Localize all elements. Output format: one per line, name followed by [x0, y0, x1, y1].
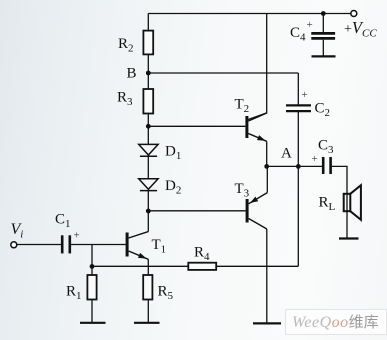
- svg-text:A: A: [281, 146, 292, 162]
- resistor R4: [188, 263, 216, 270]
- svg-text:R4: R4: [194, 245, 210, 264]
- wire top rail +Vcc: [148, 13, 350, 15]
- ground R5: [134, 322, 160, 324]
- wire feedback to R4: [216, 265, 298, 267]
- wire D2 to T1 collector node: [147, 191, 149, 211]
- wire feedback node A down: [297, 166, 299, 266]
- svg-text:R5: R5: [158, 284, 174, 303]
- wire D1 to D2: [147, 156, 149, 179]
- wire T1 collector vertical: [147, 211, 149, 232]
- resistor R2: [143, 31, 153, 55]
- diode D2: [139, 179, 158, 191]
- capacitor C4: [311, 33, 335, 38]
- svg-text:D1: D1: [165, 144, 181, 163]
- wire C2 bottom to node A: [297, 112, 299, 166]
- wire R4 to base bias node: [92, 265, 188, 267]
- node base bias junction: [90, 264, 95, 269]
- wire C2 top from node B: [297, 73, 299, 105]
- svg-text:RL: RL: [319, 195, 336, 214]
- wire base node down to R1: [91, 245, 93, 276]
- wire T3 collector to ground: [266, 229, 268, 323]
- wire input terminal to C1: [17, 244, 61, 246]
- wire Vcc to C4: [322, 14, 324, 33]
- svg-text:T2: T2: [235, 97, 250, 116]
- svg-text:D2: D2: [165, 178, 181, 197]
- node T3 base junction: [146, 209, 151, 214]
- svg-text:+VCC: +VCC: [344, 18, 377, 39]
- svg-text:R2: R2: [118, 36, 134, 55]
- svg-text:B: B: [127, 66, 137, 82]
- output terminal +Vcc: [351, 11, 357, 17]
- svg-text:+: +: [74, 230, 80, 242]
- wire C3 to speaker: [330, 166, 347, 238]
- wire T3 emitter to node A: [266, 166, 268, 192]
- svg-text:+: +: [302, 89, 308, 101]
- wire R1 to ground: [91, 300, 93, 323]
- node A junction: [264, 164, 269, 169]
- watermark WeeQoo: [285, 309, 387, 335]
- capacitor C3: [323, 157, 330, 174]
- wire R2 to R3 through node B: [147, 54, 149, 89]
- svg-text:C1: C1: [55, 211, 71, 230]
- wire node A to C3: [267, 165, 322, 167]
- wire C1 to T1 base: [71, 244, 126, 246]
- ground T3 collector: [253, 322, 281, 324]
- resistor R3: [143, 89, 153, 114]
- node T2 base junction: [146, 124, 151, 129]
- wire R3 to D1: [147, 114, 149, 145]
- node B junction: [146, 71, 151, 76]
- speaker RL: [344, 185, 361, 220]
- wire D2 bottom node to T3 base: [148, 210, 245, 212]
- node C4 top junction: [321, 11, 326, 16]
- svg-text:C4: C4: [290, 25, 306, 44]
- ground speaker: [339, 237, 359, 239]
- svg-text:R3: R3: [117, 90, 133, 109]
- wire node B to C2 column: [148, 72, 298, 74]
- svg-text:+: +: [312, 153, 318, 165]
- node C2 bottom junction: [296, 164, 301, 169]
- ground C4: [312, 55, 336, 57]
- resistor R5: [143, 275, 152, 300]
- ground R1: [80, 322, 106, 324]
- svg-text:Vi: Vi: [11, 221, 24, 241]
- wire R3 bottom node to T2 base: [148, 125, 245, 127]
- capacitor C1: [62, 235, 70, 253]
- transistor T2: [245, 113, 266, 141]
- svg-text:+: +: [307, 19, 313, 31]
- svg-text:C3: C3: [318, 138, 334, 157]
- input terminal Vi: [11, 242, 17, 248]
- transistor T1: [126, 232, 149, 260]
- svg-text:C2: C2: [315, 101, 331, 120]
- svg-text:T3: T3: [235, 181, 250, 200]
- svg-text:R1: R1: [66, 284, 82, 303]
- wire C4 to ground: [322, 40, 324, 56]
- wire R5 to ground: [147, 300, 149, 323]
- wire T1 emitter to R5: [147, 259, 149, 275]
- wire left column rail to R2: [147, 14, 149, 31]
- diode D1: [139, 144, 158, 156]
- capacitor C2: [286, 105, 311, 111]
- wire T2 collector column: [248, 14, 267, 120]
- wire T2 emitter to node A: [266, 141, 268, 166]
- transistor T3: [246, 193, 268, 229]
- svg-text:T1: T1: [152, 237, 167, 256]
- resistor R1: [87, 275, 96, 300]
